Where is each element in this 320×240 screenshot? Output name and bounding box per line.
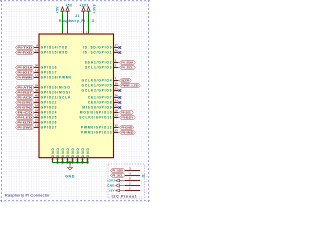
global label PWR_LED (120, 83, 141, 87)
svg-text:GPIO15/RXD: GPIO15/RXD (41, 51, 69, 55)
pin 27 ID_SD/GPIO0 stub (114, 46, 119, 49)
svg-text:GPIO18/PWM0: GPIO18/PWM0 (41, 76, 72, 80)
svg-text:+5V: +5V (56, 6, 60, 13)
pin 5 SCL1/GPIO3 stub (114, 66, 119, 69)
svg-text:J2: J2 (142, 174, 146, 178)
pin 23 SCLK0/GPIO11 stub (114, 116, 119, 119)
pin 19 MOSI0/GPIO10 stub (114, 111, 119, 114)
wire pin 2 to +5V (61, 11, 64, 34)
pin 18 GPIO24 stub (34, 111, 39, 114)
junction at GND pin x=217.5 (71, 161, 73, 163)
power symbol +5V (J2.1) (116, 189, 125, 192)
svg-text:31: 31 (115, 87, 119, 91)
power symbol GND (J2.2) (116, 184, 125, 188)
svg-text:SDA1/GPIO2: SDA1/GPIO2 (85, 61, 113, 65)
svg-text:22: 22 (35, 114, 39, 118)
svg-text:GPIO25: GPIO25 (41, 116, 58, 120)
pin 6 GND stub (51, 158, 54, 163)
connector J1 Raspberry_Pi_2_3 body (39, 34, 114, 158)
svg-text:10: 10 (35, 49, 39, 53)
pin 33 PWM1/GPIO13 stub (114, 131, 119, 134)
svg-text:35: 35 (35, 84, 39, 88)
svg-text:SCLK0/GPIO11: SCLK0/GPIO11 (79, 116, 112, 120)
pin 38 GPIO20/MOSI stub (34, 91, 39, 94)
svg-text:PI_SDA: PI_SDA (112, 169, 124, 173)
svg-text:GND: GND (86, 147, 90, 157)
svg-text:37: 37 (35, 119, 39, 123)
svg-text:SCL1/GPIO3: SCL1/GPIO3 (85, 66, 112, 70)
svg-text:PWM1/GPIO13: PWM1/GPIO13 (81, 131, 112, 135)
global label PI-CD (16, 110, 35, 114)
pin 9 GND stub (56, 158, 59, 163)
svg-text:26: 26 (115, 94, 119, 98)
svg-text:+5V: +5V (65, 4, 72, 8)
pin 5 of J2 (125, 179, 139, 182)
svg-text:Raspberry Pi Connector: Raspberry Pi Connector (5, 194, 50, 198)
svg-text:GND: GND (61, 147, 65, 157)
svg-text:19: 19 (115, 109, 119, 113)
svg-text:17: 17 (86, 30, 90, 34)
no-connect X pin 27 (119, 46, 122, 49)
global label PI-SW1 (16, 125, 35, 129)
svg-text:PWM0/GPIO12: PWM0/GPIO12 (81, 126, 112, 130)
pin 26 CE1/GPIO7 stub (114, 96, 119, 99)
pin 24 CE0/GPIO8 stub (114, 101, 119, 104)
pin 1 of J2 (125, 189, 139, 192)
wire pin 17 to +3V3 (87, 11, 90, 34)
pin 3 SDA1/GPIO2 stub (114, 61, 119, 64)
global label PI-ACK (16, 95, 35, 99)
power symbol +5V arrow (pin 4) (66, 7, 69, 11)
svg-text:40: 40 (35, 94, 39, 98)
svg-text:ID_SC/GPIO1: ID_SC/GPIO1 (83, 51, 112, 55)
svg-text:18: 18 (35, 109, 39, 113)
svg-text:GND: GND (71, 147, 75, 157)
pin 11 GPIO17 stub (34, 71, 39, 74)
pin 14 GND stub (61, 158, 64, 163)
svg-text:GND: GND (107, 184, 115, 188)
svg-text:+3V3: +3V3 (79, 4, 88, 8)
global label PI-ATN (16, 85, 35, 89)
global label PI-SEL (120, 110, 134, 114)
svg-text:33: 33 (115, 129, 119, 133)
global label PI-LED (16, 115, 35, 119)
pin 20 GND stub (66, 158, 69, 163)
svg-text:GCLK1/GPIO5: GCLK1/GPIO5 (82, 84, 113, 88)
no-connect X pin 26 (119, 96, 122, 99)
svg-text:+3V3: +3V3 (107, 179, 115, 183)
global label PI-IND (120, 130, 136, 134)
svg-text:GPIO23: GPIO23 (41, 106, 58, 110)
wire pin 1 to +3V3 (82, 11, 85, 34)
svg-text:+3V3: +3V3 (92, 4, 96, 13)
svg-text:GPIO14/TXD: GPIO14/TXD (41, 46, 68, 50)
pin 16 GPIO23 stub (34, 106, 39, 109)
global label BZR (120, 78, 132, 82)
pin 8 GPIO14/TXD stub (34, 46, 39, 49)
svg-text:GPIO22: GPIO22 (41, 101, 58, 105)
svg-text:12: 12 (35, 74, 39, 78)
svg-text:GPIO16: GPIO16 (41, 66, 58, 70)
wire GND bus along bottom pins (52, 161, 88, 164)
pin 30 GND stub (76, 158, 79, 163)
pin 21 MISO0/GPIO9 stub (114, 106, 119, 109)
pin 7 GCLK0/GPIO4 stub (114, 79, 119, 82)
pin 29 GCLK1/GPIO5 stub (114, 84, 119, 87)
pin 22 GPIO25 stub (34, 116, 39, 119)
global label PI_SCL (120, 65, 136, 69)
svg-text:Raspberry_Pi_2_3: Raspberry_Pi_2_3 (59, 19, 94, 23)
pin 37 GPIO26 stub (34, 121, 39, 124)
svg-text:32: 32 (115, 124, 119, 128)
pin 12 GPIO18/PWM0 stub (34, 76, 39, 79)
svg-text:GPIO27: GPIO27 (41, 126, 58, 130)
power symbol +3V3 (J2.5) (116, 179, 125, 182)
svg-text:23: 23 (115, 114, 119, 118)
svg-text:GND: GND (51, 147, 55, 157)
svg-text:GND: GND (81, 147, 85, 157)
svg-text:CE1/GPIO7: CE1/GPIO7 (88, 96, 113, 100)
svg-text:+5V: +5V (109, 189, 115, 193)
global label PI_SDA (120, 60, 136, 64)
pin 3 of J2 (125, 169, 139, 172)
svg-text:GCLK0/GPIO4: GCLK0/GPIO4 (82, 79, 113, 83)
svg-text:GPIO21/SCLK: GPIO21/SCLK (41, 96, 71, 100)
svg-text:11: 11 (35, 69, 38, 73)
svg-text:GPIO17: GPIO17 (41, 71, 58, 75)
power symbol +5V arrow (pin 2) (61, 7, 64, 11)
svg-text:MISO0/GPIO9: MISO0/GPIO9 (82, 106, 112, 110)
svg-text:GND: GND (56, 147, 60, 157)
junction at GND pin x=187.5 (61, 161, 63, 163)
global label PI-BTN2 (16, 105, 35, 109)
junction at GND pin x=262.5 (86, 161, 88, 163)
svg-text:15: 15 (35, 99, 39, 103)
power symbol GND (68, 163, 73, 171)
global label PI-PWM0 (16, 75, 35, 79)
svg-text:GND: GND (66, 147, 70, 157)
svg-text:16: 16 (35, 104, 39, 108)
pin 10 GPIO15/RXD stub (34, 51, 39, 54)
pin 25 GND stub (71, 158, 74, 163)
connector J2 (I2C header) pins (125, 167, 140, 171)
junction at GND pin x=202.5 (66, 161, 68, 163)
junction at GND pin x=172.5 (56, 161, 58, 163)
global label PI-BZR (16, 120, 35, 124)
no-connect X pin 28 (119, 51, 122, 54)
svg-text:PI_SCL: PI_SCL (112, 174, 123, 178)
no-connect X pin 31 (119, 89, 122, 92)
svg-text:38: 38 (35, 89, 39, 93)
pin 13 GPIO27 stub (34, 126, 39, 129)
svg-text:GND: GND (65, 174, 75, 178)
svg-text:27: 27 (115, 44, 119, 48)
svg-text:29: 29 (115, 82, 119, 86)
page border (dashed) (0, 0, 150, 202)
global label PI-ENB (120, 125, 134, 129)
no-connect X pin 24 (119, 101, 122, 104)
svg-text:GPIO20/MOSI: GPIO20/MOSI (41, 91, 71, 95)
no-connect X pin 21 (119, 106, 122, 109)
global label PI-BTN1 (16, 100, 35, 104)
svg-text:CE0/GPIO8: CE0/GPIO8 (88, 101, 113, 105)
svg-text:GPIO24: GPIO24 (41, 111, 58, 115)
svg-text:13: 13 (35, 124, 39, 128)
pin 15 GPIO22 stub (34, 101, 39, 104)
pin 36 GPIO16 stub (34, 66, 39, 69)
svg-text:36: 36 (35, 64, 39, 68)
pin 34 GND stub (81, 158, 84, 163)
pin 35 GPIO19/MISO stub (34, 86, 39, 89)
svg-text:28: 28 (115, 49, 119, 53)
pin 28 ID_SC/GPIO1 stub (114, 51, 119, 54)
svg-text:MOSI0/GPIO10: MOSI0/GPIO10 (80, 111, 113, 115)
pin 40 GPIO21/SCLK stub (34, 96, 39, 99)
global label PI-RXD (16, 50, 35, 54)
power symbol +3V3 arrow (pin 1) (82, 7, 85, 11)
dashed group box I2C Pinout (108, 164, 144, 198)
wire pin 4 to +5V (66, 11, 69, 34)
global label PI_SCL (J2.4) (111, 173, 126, 177)
svg-text:ID_SD/GPIO0: ID_SD/GPIO0 (83, 46, 112, 50)
svg-text:GPIO19/MISO: GPIO19/MISO (41, 86, 71, 90)
pin 4 of J2 (125, 174, 139, 177)
power symbol +3V3 arrow (pin 17) (87, 7, 90, 11)
global label PI-IO17 (16, 70, 35, 74)
svg-text:24: 24 (115, 99, 119, 103)
global label PI_SDA (J2.3) (111, 168, 126, 172)
pin 39 GND stub (86, 158, 89, 163)
pin 31 GCLK2/GPIO6 stub (114, 89, 119, 92)
pin 32 PWM0/GPIO12 stub (114, 126, 119, 129)
global label PI-BSY (120, 115, 136, 119)
svg-text:GND: GND (76, 147, 80, 157)
svg-text:GCLK2/GPIO6: GCLK2/GPIO6 (82, 89, 113, 93)
junction at GND stem (69, 161, 71, 163)
svg-text:GPIO26: GPIO26 (41, 121, 58, 125)
svg-text:J1: J1 (75, 14, 80, 18)
junction at GND pin x=247.5 (81, 161, 83, 163)
svg-text:21: 21 (115, 104, 119, 108)
global label PI-IO16 (16, 65, 35, 69)
svg-text:I2C Pinout: I2C Pinout (112, 194, 137, 198)
junction at GND pin x=232.5 (76, 161, 78, 163)
global label PI-RST (16, 90, 35, 94)
global label PI-TXD (16, 45, 35, 49)
pin 2 of J2 (125, 184, 139, 187)
